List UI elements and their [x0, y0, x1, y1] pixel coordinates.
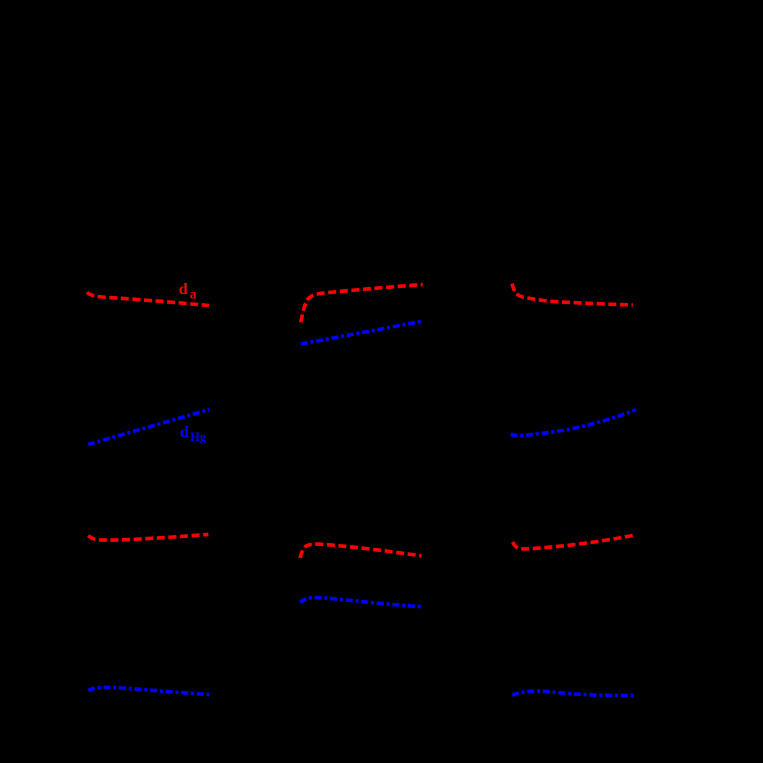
svg-text:d: d [179, 280, 188, 298]
curve d_Hg panel top-right (blue dash-dot) [511, 410, 636, 436]
curve d_a panel bottom-left (red dashed) [88, 534, 208, 540]
svg-text:Hg: Hg [190, 430, 207, 444]
curve d_a panel bottom-middle (red dashed) [300, 544, 421, 558]
curve d_Hg panel bottom-middle (blue dash-dot) [300, 598, 421, 607]
curve d_a panel bottom-right (red dashed) [513, 535, 635, 549]
curve d_a panel top-left (red dashed) [87, 292, 209, 305]
curve d_Hg panel top-left (blue dash-dot) [88, 410, 209, 445]
curve d_Hg panel bottom-right (blue dash-dot) [512, 691, 636, 696]
svg-text:d: d [180, 423, 189, 441]
curve d_Hg panel bottom-left (blue dash-dot) [88, 687, 209, 694]
curve d_a panel top-middle (red dashed) [301, 285, 423, 323]
curve d_a panel top-right (red dashed) [512, 284, 633, 305]
curve d_Hg panel top-middle (blue dash-dot) [301, 322, 421, 345]
svg-text:a: a [190, 286, 197, 301]
